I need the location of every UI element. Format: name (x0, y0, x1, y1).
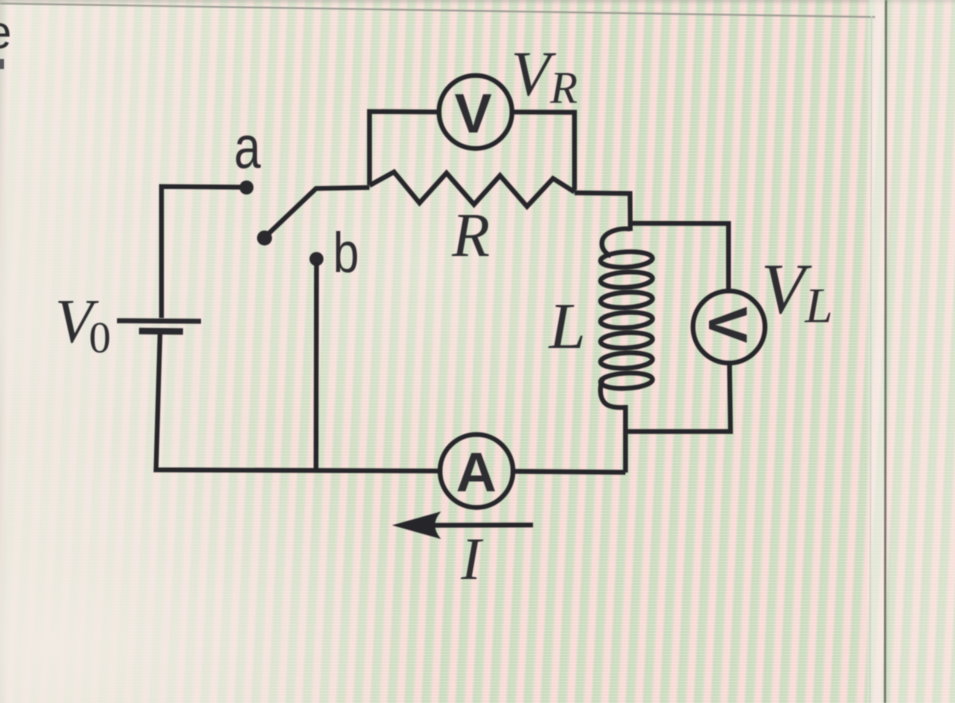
svg-text:L: L (548, 290, 586, 363)
svg-text:I: I (460, 526, 484, 592)
current I arrowhead (392, 512, 441, 540)
node b contact dot (310, 252, 324, 266)
svg-text:V0: V0 (55, 288, 111, 362)
inductor L coil loop 6 (600, 352, 653, 370)
current I arrow shaft (424, 523, 533, 528)
node a contact dot (240, 181, 254, 195)
svg-text:R: R (451, 202, 490, 270)
screen faint inner vertical edge (870, 16, 872, 703)
svg-text:V: V (697, 307, 759, 344)
wire: node b down to bottom rail (314, 262, 319, 471)
voltmeter VR branch right wire (512, 112, 575, 190)
wire: bottom rail right of ammeter to inductor corner (513, 471, 626, 472)
svg-text:A: A (456, 441, 496, 504)
screen top edge line (0, 4, 875, 18)
inductor L coil bottom hook (600, 378, 625, 408)
ammeter A circle (440, 435, 513, 508)
inductor L coil loop 4 (600, 311, 653, 329)
inductor L coil loop 3 (600, 291, 653, 309)
wire: VL branch bottom (626, 363, 731, 432)
screen dark right vertical edge (885, 0, 886, 703)
svg-text:V: V (455, 82, 492, 145)
cropped mark at left edge (0, 59, 4, 69)
battery V0 plates (117, 318, 201, 324)
wire: inductor bottom to bottom rail corner (623, 405, 628, 473)
svg-text:b: b (333, 222, 359, 285)
svg-text:VL: VL (761, 249, 833, 333)
wire: resistor right to inductor top junction (575, 193, 631, 231)
voltmeter U2 (VL) circle (693, 291, 765, 363)
inductor L coil loop 1 (600, 251, 653, 269)
svg-text:VR: VR (511, 38, 578, 113)
switch pivot dot (257, 231, 272, 246)
resistor R zigzag (370, 172, 575, 207)
inductor L coil loop 5 (600, 331, 653, 349)
wire: VL branch top (630, 223, 728, 291)
inductor L coil loop 2 (600, 271, 653, 289)
voltmeter VR branch left wire (370, 112, 440, 186)
inductor L coil top hook (602, 229, 630, 256)
wire: battery positive to top-left corner (162, 187, 242, 319)
wire: battery negative to bottom-left corner and bottom rail left part (156, 334, 440, 471)
switch lever and pivot to resistor wire (265, 188, 370, 238)
svg-text:a: a (234, 114, 261, 181)
voltmeter U1 circle (439, 76, 512, 149)
inductor L coil loop 7 (600, 372, 653, 390)
svg-text:e: e (0, 6, 12, 58)
